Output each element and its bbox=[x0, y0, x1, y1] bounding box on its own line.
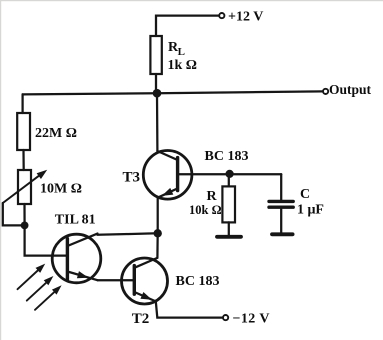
wire output line bbox=[23, 91, 323, 94]
terminal Output bbox=[323, 89, 328, 94]
terminal +12V bbox=[219, 13, 224, 18]
scan edge left bbox=[0, 0, 1, 340]
node base/R junction bbox=[226, 170, 234, 178]
node output junction bbox=[153, 89, 162, 98]
svg-text:R: R bbox=[207, 189, 218, 204]
svg-text:10M Ω: 10M Ω bbox=[40, 182, 82, 197]
svg-text:T3: T3 bbox=[123, 169, 141, 185]
node collector junction bbox=[154, 229, 162, 237]
wire node to T2 collector bbox=[156, 233, 159, 258]
scan edge top bbox=[0, 0, 383, 1]
svg-text:+12 V: +12 V bbox=[228, 10, 263, 25]
node wiper junction bbox=[21, 222, 29, 230]
wire left drop to 22M bbox=[21, 94, 23, 113]
ground (R) bbox=[217, 235, 241, 239]
transistor T2 bbox=[122, 258, 168, 304]
phototransistor TIL 81 bbox=[52, 234, 101, 283]
wire +12V rail bbox=[156, 16, 219, 36]
transistor T3 bbox=[143, 151, 192, 200]
svg-text:BC 183: BC 183 bbox=[205, 149, 249, 164]
wire TIL81 collector to node bbox=[98, 233, 158, 235]
light arrow 2 bbox=[27, 274, 56, 301]
svg-text:TIL 81: TIL 81 bbox=[55, 213, 96, 228]
label C bbox=[297, 187, 324, 218]
svg-text:L: L bbox=[178, 46, 185, 58]
wire T3 collector bbox=[156, 93, 159, 151]
svg-text:T2: T2 bbox=[132, 311, 150, 327]
terminal -12V bbox=[223, 315, 228, 320]
svg-text:10k Ω: 10k Ω bbox=[189, 203, 222, 217]
svg-text:−12 V: −12 V bbox=[233, 312, 270, 327]
wire 22M to 10M bbox=[22, 150, 24, 170]
wire 10M bottom lead bbox=[23, 204, 25, 225]
svg-text:1k Ω: 1k Ω bbox=[168, 58, 198, 73]
svg-text:BC 183: BC 183 bbox=[176, 274, 220, 289]
resistor RL bbox=[150, 36, 161, 74]
wire T2 emitter to -12V bbox=[156, 301, 223, 317]
light arrow 1 bbox=[18, 261, 48, 289]
label R bbox=[189, 189, 222, 217]
ground (C) bbox=[272, 232, 293, 236]
resistor R 10k bbox=[222, 174, 235, 236]
resistor R2 10M adjustable bbox=[18, 170, 31, 204]
wiper arrow of 10M bbox=[3, 167, 50, 203]
light arrow 3 bbox=[35, 283, 64, 310]
resistor R1 22M bbox=[17, 113, 30, 150]
wire wiper return bbox=[3, 203, 25, 225]
wire T3 base line bbox=[179, 173, 281, 175]
svg-text:22M Ω: 22M Ω bbox=[35, 126, 77, 141]
wire to TIL81 base bbox=[25, 225, 67, 255]
svg-text:C: C bbox=[300, 187, 310, 202]
svg-text:1 μF: 1 μF bbox=[297, 203, 324, 218]
svg-text:Output: Output bbox=[329, 82, 372, 97]
wire RL bottom lead bbox=[155, 74, 157, 93]
label RL bbox=[168, 40, 198, 73]
capacitor C1 bbox=[269, 174, 293, 233]
wire T3 emitter bbox=[157, 198, 159, 234]
wire TIL81 emitter to T2 base bbox=[98, 279, 134, 281]
